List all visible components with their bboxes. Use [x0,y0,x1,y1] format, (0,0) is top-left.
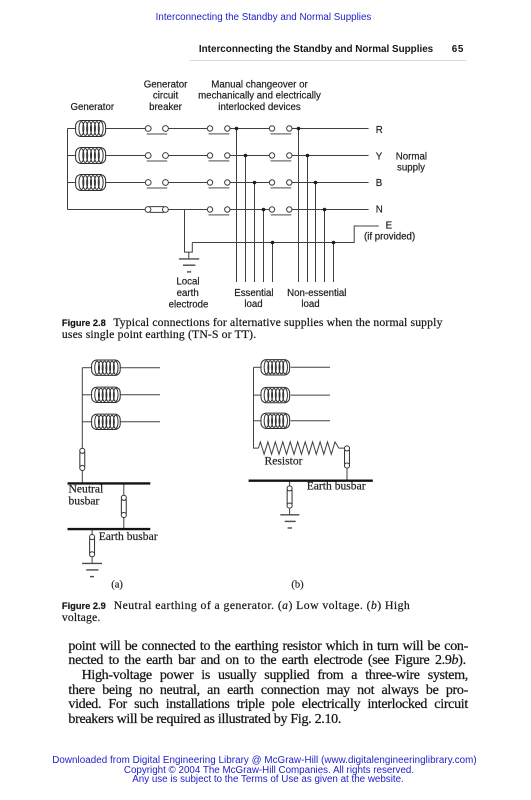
generator winding (b) 2 [261,387,290,402]
wire: B phase [68,182,76,184]
generator winding (a) 1 [92,360,121,375]
svg-text:busbar: busbar [69,494,100,507]
svg-text:Normal: Normal [396,152,427,163]
caption figure 2.9 [62,600,410,624]
wire: neutral busbar to link2 [123,483,125,495]
wire: (a) winding tails [82,367,91,369]
svg-text:Local: Local [176,277,199,288]
wire: non-essential feeder B [315,183,317,283]
breaker contact B [145,180,168,188]
generator winding B [76,175,106,191]
svg-text:Y: Y [376,152,383,163]
wire: earth stem (b) [289,509,291,515]
neutral busbar (a) [68,482,151,484]
wire: non-essential feeder R [298,129,300,283]
neutral link on N line [145,207,168,213]
wire: Y phase [68,155,76,157]
svg-text:R: R [376,125,383,136]
wire: essential feeder N [263,210,265,283]
junction Y non-essential [306,154,310,158]
changeover switch non-essential R [269,126,292,134]
generator winding (b) 3 [261,413,290,428]
ground: local earth electrode [179,259,199,272]
earth busbar (b) [249,480,373,482]
svg-text:earth: earth [177,288,199,299]
generator winding (a) 3 [92,414,121,429]
wire: essential feeder B [254,183,256,283]
resistor zigzag [258,442,344,454]
svg-text:breaker: breaker [149,102,183,113]
svg-text:Resistor: Resistor [265,454,303,467]
junction B non-essential [314,181,318,185]
svg-text:E: E [386,221,393,232]
wire: link to earth busbar (b) [346,469,348,480]
svg-text:load: load [301,299,319,310]
wire: earth busbar to link3 [91,529,93,535]
wire: N neutral [68,209,146,211]
junction N essential [262,208,266,212]
wire: essential feeder R [236,129,238,283]
svg-text:mechanically and electrically: mechanically and electrically [198,91,321,102]
wire: (b) star point bus [254,367,259,448]
generator winding Y [76,148,106,164]
wire: earth busbar to link (b) [289,481,291,486]
wire: left generator bus [67,129,69,210]
svg-text:(a): (a) [111,579,123,590]
svg-text:supply: supply [397,162,425,173]
changeover switch non-essential Y [269,153,292,161]
svg-text:Manual changeover or: Manual changeover or [211,79,308,90]
svg-text:Generator: Generator [144,79,188,90]
generator winding R [76,121,106,137]
junction B essential [253,181,257,185]
svg-text:B: B [376,178,382,189]
svg-text:Earth busbar: Earth busbar [99,530,158,543]
wire: earth stem (a) [91,558,93,564]
wire: earth drop from N [185,210,193,253]
wire: link1 to neutral busbar [81,471,83,484]
svg-text:(b): (b) [291,579,304,590]
changeover switch non-essential B [269,180,292,188]
svg-text:load: load [244,299,262,310]
header rule [190,60,466,61]
wire: non-essential feeder E [333,243,335,283]
changeover switch essential N [207,207,230,215]
ground symbol (a) [82,563,102,576]
wire: non-essential feeder Y [307,156,309,283]
junction N non-essential [323,208,327,212]
wire: E earth line [192,226,378,243]
generator winding (b) 1 [261,360,290,375]
junction R essential [235,127,239,131]
top blue running head [0,13,527,23]
wire: link2 to earth busbar [123,517,125,529]
svg-text:interlocked devices: interlocked devices [218,102,301,113]
earth link (a) [90,535,95,557]
neutral link (a) [80,448,85,470]
svg-text:N: N [376,205,383,216]
wire: R phase [68,128,76,130]
wire: essential feeder E [272,243,274,283]
changeover switch non-essential N [269,207,292,215]
earth busbar (a) [68,528,151,530]
changeover switch essential Y [207,153,230,161]
svg-text:Generator: Generator [70,102,114,113]
page header bold [199,45,433,55]
ground symbol (b) [280,515,299,528]
changeover switch essential R [207,126,230,134]
svg-text:Earth busbar: Earth busbar [307,480,366,493]
svg-text:circuit: circuit [153,91,179,102]
changeover switch essential B [207,180,230,188]
wire: essential feeder Y [245,156,247,283]
caption figure 2.8 [62,317,443,341]
resistor link (b) [344,446,349,468]
breaker contact Y [145,153,168,161]
body paragraphs [68,640,468,728]
busbar interconnect link (a) [121,495,126,517]
svg-text:Essential: Essential [234,288,273,299]
wire: earth stem [188,252,190,259]
svg-text:electrode: electrode [169,300,209,311]
wire: (b) winding tails [254,366,262,368]
svg-text:(if provided): (if provided) [364,232,415,243]
wire: non-essential feeder N [324,210,326,283]
wire: (a) star point bus [81,368,83,449]
earth link (b) [287,486,292,508]
junction Y essential [244,154,248,158]
footer [0,756,529,785]
junction E essential [271,241,275,245]
junction E non-essential [332,241,336,245]
junction R non-essential [297,127,301,131]
generator winding (a) 2 [92,387,121,402]
breaker contact R [145,126,168,134]
svg-text:Non-essential: Non-essential [287,288,346,299]
